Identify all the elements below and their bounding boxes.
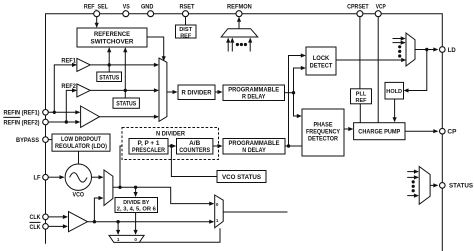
svg-text:REF1: REF1 [61, 59, 76, 65]
svg-text:VCP: VCP [376, 5, 386, 11]
svg-text:REFIN (REF2): REFIN (REF2) [4, 120, 40, 126]
svg-text:CP: CP [447, 130, 456, 136]
svg-text:PLL: PLL [356, 92, 367, 98]
svg-text:REF: REF [180, 33, 191, 39]
svg-text:DETECT: DETECT [310, 63, 333, 69]
svg-text:FREQUENCY: FREQUENCY [306, 130, 340, 136]
svg-text:REF2: REF2 [61, 84, 76, 90]
svg-text:PRESCALER: PRESCALER [132, 148, 166, 154]
svg-text:CHARGE PUMP: CHARGE PUMP [358, 130, 400, 136]
svg-text:A/B: A/B [189, 141, 201, 147]
svg-text:CPRSET: CPRSET [347, 5, 369, 11]
svg-text:PHASE: PHASE [314, 123, 333, 129]
svg-text:1: 1 [117, 237, 120, 242]
svg-text:STATUS: STATUS [99, 75, 119, 81]
svg-text:LD: LD [448, 48, 457, 54]
svg-text:CLK: CLK [30, 215, 42, 221]
svg-text:RSET: RSET [180, 5, 195, 11]
svg-text:1: 1 [216, 218, 219, 223]
svg-text:REF_SEL: REF_SEL [84, 5, 108, 11]
svg-text:GND: GND [141, 5, 154, 11]
svg-text:BYPASS: BYPASS [16, 138, 39, 144]
svg-text:N DELAY: N DELAY [242, 148, 266, 154]
svg-text:HOLD: HOLD [386, 89, 402, 95]
svg-text:R DELAY: R DELAY [242, 94, 266, 100]
svg-text:CLK: CLK [30, 225, 42, 231]
svg-text:0: 0 [134, 237, 137, 242]
svg-text:DETECTOR: DETECTOR [308, 137, 339, 143]
svg-text:STATUS: STATUS [449, 184, 473, 190]
svg-text:N DIVIDER: N DIVIDER [156, 131, 186, 137]
svg-text:REFMON: REFMON [227, 5, 252, 11]
svg-text:SWITCHOVER: SWITCHOVER [91, 39, 135, 45]
svg-text:DIVIDE BY: DIVIDE BY [123, 200, 149, 206]
svg-text:REF: REF [356, 98, 367, 104]
svg-text:REFERENCE: REFERENCE [94, 32, 130, 38]
svg-text:PROGRAMMABLE: PROGRAMMABLE [228, 87, 279, 93]
svg-text:VCO STATUS: VCO STATUS [222, 175, 261, 181]
svg-text:R DIVIDER: R DIVIDER [182, 90, 213, 96]
svg-text:PROGRAMMABLE: PROGRAMMABLE [229, 141, 280, 147]
svg-text:LF: LF [34, 176, 41, 182]
svg-text:DIST: DIST [179, 27, 192, 33]
svg-text:REFIN (REF1): REFIN (REF1) [4, 111, 40, 117]
svg-text:STATUS: STATUS [116, 102, 136, 108]
svg-text:LOCK: LOCK [313, 56, 330, 62]
svg-text:LOW DROPOUT: LOW DROPOUT [61, 137, 101, 143]
svg-text:COUNTERS: COUNTERS [179, 148, 210, 154]
svg-text:P, P + 1: P, P + 1 [138, 141, 161, 147]
svg-text:2, 3, 4, 5, OR 6: 2, 3, 4, 5, OR 6 [117, 207, 157, 213]
svg-text:VCO: VCO [73, 192, 85, 198]
svg-text:VS: VS [123, 5, 130, 11]
svg-text:0: 0 [216, 202, 219, 207]
svg-text:REGULATOR (LDO): REGULATOR (LDO) [55, 144, 107, 150]
